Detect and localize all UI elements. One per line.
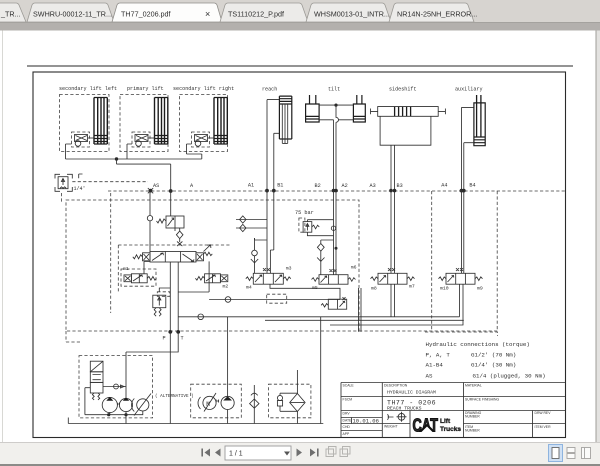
svg-text:CAT: CAT [413, 415, 439, 436]
svg-text:tilt: tilt [328, 87, 340, 93]
svg-text:SWHRU-00012-11_TR...: SWHRU-00012-11_TR... [33, 10, 112, 19]
svg-text:NUMBER: NUMBER [465, 415, 480, 419]
svg-text:TH77 - 0206: TH77 - 0206 [387, 400, 436, 407]
svg-text:_TR...: _TR... [0, 10, 21, 19]
svg-text:75 bar: 75 bar [295, 210, 314, 216]
svg-text:Trucks: Trucks [440, 426, 461, 433]
svg-text:DRW REV: DRW REV [535, 411, 552, 415]
svg-text:auxiliary: auxiliary [455, 87, 483, 93]
svg-text:DRV: DRV [343, 412, 351, 416]
svg-text:secondary lift left: secondary lift left [59, 86, 117, 92]
svg-text:P: P [163, 336, 166, 342]
svg-text:A1: A1 [248, 183, 254, 189]
svg-text:A3: A3 [370, 183, 376, 189]
svg-text:G1/2' (70 Nm): G1/2' (70 Nm) [471, 352, 516, 359]
svg-text:APP: APP [343, 432, 351, 436]
svg-text:T: T [181, 336, 184, 342]
svg-text:SURFACE FINISHING: SURFACE FINISHING [465, 398, 499, 402]
svg-text:Lift: Lift [440, 418, 451, 425]
svg-text:m8: m8 [371, 286, 377, 292]
svg-text:DATE: DATE [343, 419, 353, 423]
svg-text:NUMBER: NUMBER [465, 429, 480, 433]
svg-text:AS: AS [426, 373, 433, 380]
svg-text:m10: m10 [440, 286, 449, 292]
svg-text:A4: A4 [441, 183, 447, 189]
svg-text:AS: AS [153, 183, 159, 189]
svg-text:TH77_0206.pdf: TH77_0206.pdf [121, 10, 171, 19]
svg-text:sideshift: sideshift [389, 87, 417, 93]
svg-text:×: × [205, 9, 210, 19]
svg-text:G1/4 (plugged, 30 Nm): G1/4 (plugged, 30 Nm) [473, 373, 546, 380]
svg-text:1/4': 1/4' [74, 186, 86, 192]
svg-text:A1-B4: A1-B4 [426, 362, 444, 369]
svg-text:B2: B2 [315, 183, 321, 189]
svg-text:WEIGHT: WEIGHT [384, 425, 398, 429]
svg-text:G1/4' (30 Nm): G1/4' (30 Nm) [471, 362, 516, 369]
svg-text:m9: m9 [477, 286, 483, 292]
svg-text:SCALE: SCALE [343, 384, 355, 388]
svg-text:1 / 1: 1 / 1 [229, 451, 243, 458]
svg-text:TS1110212_P.pdf: TS1110212_P.pdf [228, 10, 284, 19]
svg-text:m4: m4 [246, 285, 252, 291]
svg-text:B3: B3 [397, 183, 403, 189]
svg-text:A2: A2 [342, 183, 348, 189]
svg-text:reach: reach [262, 87, 277, 93]
svg-text:MATERIAL: MATERIAL [465, 384, 482, 388]
svg-text:Hydraulic connections (torque): Hydraulic connections (torque) [426, 341, 530, 348]
svg-text:FSCM: FSCM [343, 398, 353, 402]
svg-text:m7: m7 [409, 284, 415, 290]
svg-text:( ALTERNATIVE ): ( ALTERNATIVE ) [155, 394, 194, 399]
svg-text:primary lift: primary lift [127, 86, 164, 92]
svg-text:B4: B4 [469, 183, 475, 189]
svg-text:m6: m6 [351, 265, 357, 271]
svg-text:HYDRAULIC DIAGRAM: HYDRAULIC DIAGRAM [387, 390, 436, 396]
svg-text:B1: B1 [277, 183, 283, 189]
svg-text:m3: m3 [286, 266, 292, 272]
svg-text:DESCRIPTION: DESCRIPTION [384, 384, 408, 388]
svg-text:m2: m2 [223, 284, 229, 290]
svg-text:P, A, T: P, A, T [426, 352, 451, 359]
svg-text:NR14N-25NH_ERROR...: NR14N-25NH_ERROR... [397, 10, 477, 19]
svg-text:WHSM0013-01_INTR...: WHSM0013-01_INTR... [314, 10, 390, 19]
svg-text:CHD: CHD [343, 425, 351, 429]
svg-text:secondary lift right: secondary lift right [173, 86, 234, 92]
svg-text:10.01.06: 10.01.06 [353, 417, 379, 424]
svg-text:ITEM VER: ITEM VER [535, 425, 552, 429]
